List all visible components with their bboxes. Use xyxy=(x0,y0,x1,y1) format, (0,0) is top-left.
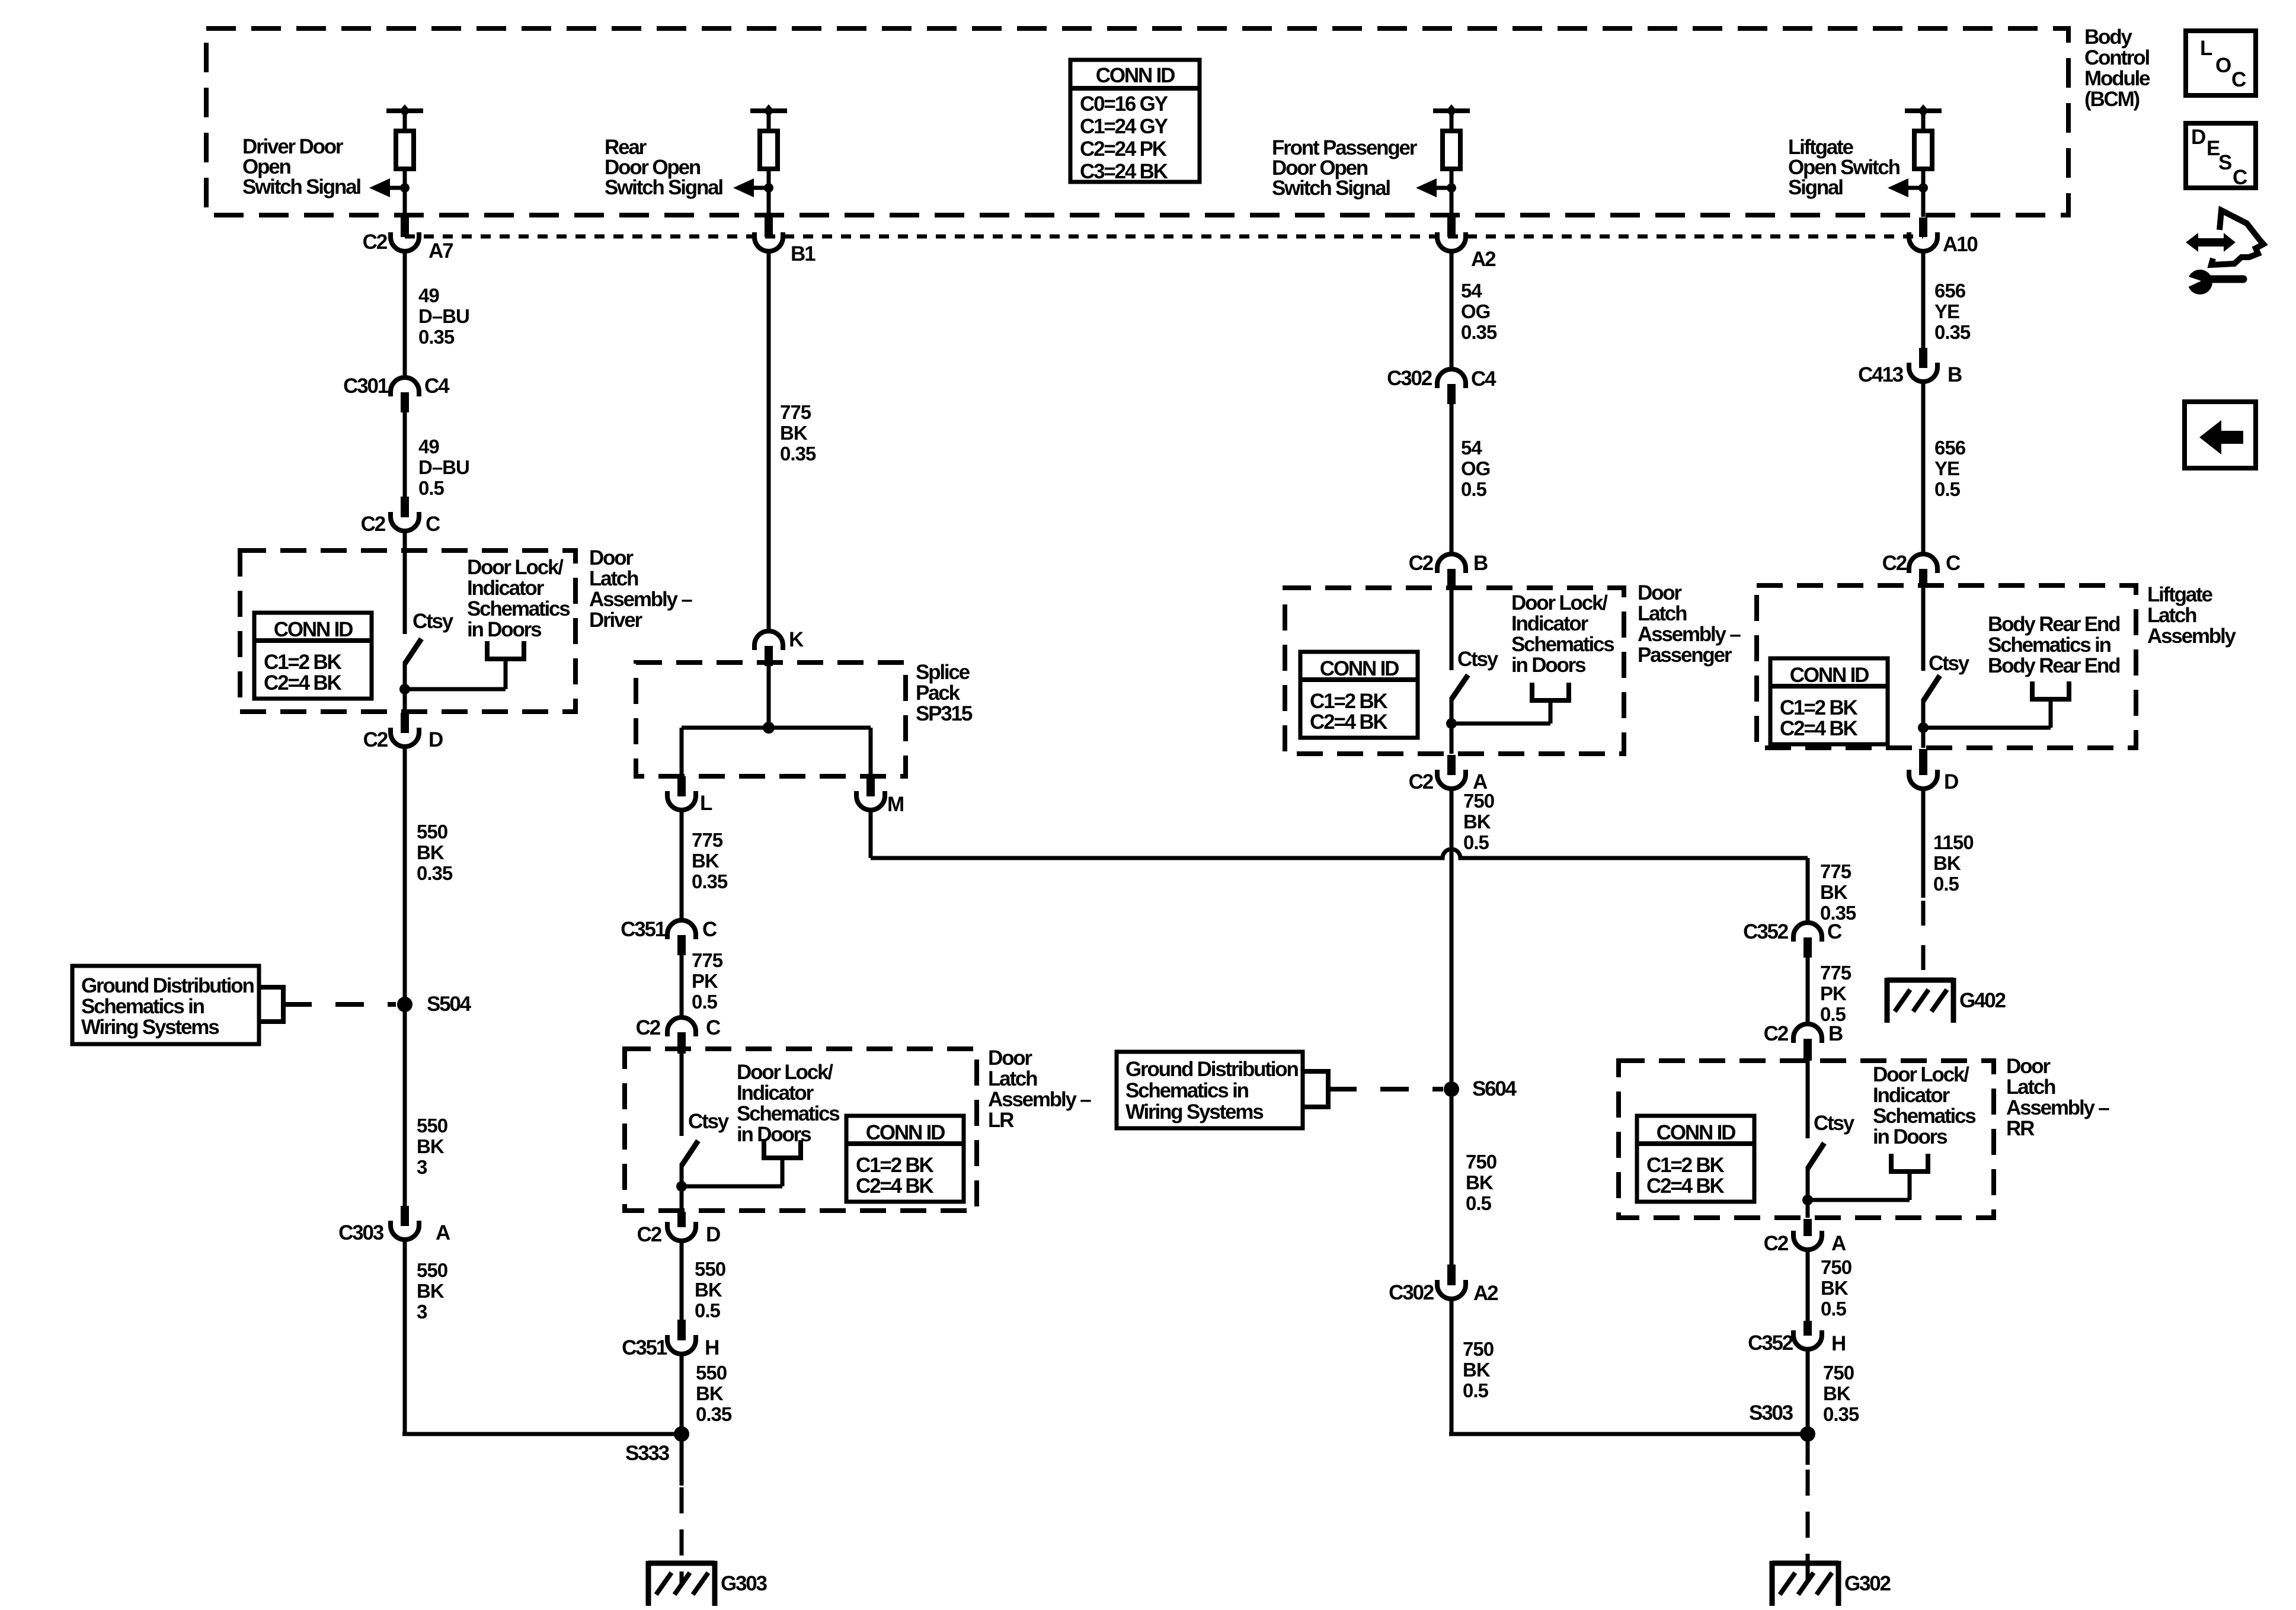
svg-text:D: D xyxy=(1944,770,1958,793)
svg-text:S333: S333 xyxy=(625,1442,670,1465)
svg-text:S604: S604 xyxy=(1472,1077,1517,1100)
svg-text:Wiring Systems: Wiring Systems xyxy=(81,1016,219,1039)
svg-text:L: L xyxy=(2200,37,2212,60)
svg-text:(BCM): (BCM) xyxy=(2084,88,2140,111)
svg-text:Door: Door xyxy=(2006,1055,2051,1078)
svg-text:C2: C2 xyxy=(361,513,386,536)
svg-text:Door: Door xyxy=(589,546,634,569)
svg-text:49: 49 xyxy=(418,436,439,457)
svg-text:775: 775 xyxy=(1820,962,1851,984)
svg-text:C1=2 BK: C1=2 BK xyxy=(856,1154,933,1177)
svg-text:Ctsy: Ctsy xyxy=(1814,1112,1855,1135)
svg-text:C3=24 BK: C3=24 BK xyxy=(1080,160,1168,183)
svg-text:PK: PK xyxy=(1820,982,1847,1004)
svg-text:C0=16 GY: C0=16 GY xyxy=(1080,92,1168,116)
svg-text:750: 750 xyxy=(1463,790,1494,812)
svg-text:BK: BK xyxy=(417,1135,445,1157)
svg-text:C2=4 BK: C2=4 BK xyxy=(1646,1174,1724,1198)
svg-text:in Doors: in Doors xyxy=(467,618,542,641)
svg-text:K: K xyxy=(789,628,804,651)
svg-text:656: 656 xyxy=(1934,280,1966,302)
svg-text:S: S xyxy=(2218,151,2231,174)
svg-text:49: 49 xyxy=(418,284,439,306)
svg-text:C2: C2 xyxy=(1764,1022,1789,1045)
svg-text:0.35: 0.35 xyxy=(1934,321,1971,343)
svg-text:750: 750 xyxy=(1463,1338,1494,1360)
svg-text:Module: Module xyxy=(2084,67,2150,90)
svg-text:C2: C2 xyxy=(1409,770,1434,793)
svg-text:C351: C351 xyxy=(622,1336,667,1359)
svg-text:C2=4 BK: C2=4 BK xyxy=(1310,710,1387,734)
svg-text:0.5: 0.5 xyxy=(1461,478,1487,500)
svg-text:0.5: 0.5 xyxy=(1466,1192,1492,1214)
svg-text:Latch: Latch xyxy=(988,1067,1037,1090)
svg-text:Signal: Signal xyxy=(1788,176,1843,199)
svg-text:Indicator: Indicator xyxy=(467,577,545,600)
svg-text:0.5: 0.5 xyxy=(1463,831,1489,853)
svg-text:C301: C301 xyxy=(343,375,389,398)
svg-text:Latch: Latch xyxy=(2006,1076,2055,1099)
svg-text:0.5: 0.5 xyxy=(1463,1379,1489,1401)
svg-text:A10: A10 xyxy=(1943,233,1978,256)
svg-text:750: 750 xyxy=(1466,1151,1496,1173)
svg-text:Ground Distribution: Ground Distribution xyxy=(1125,1058,1298,1081)
svg-text:H: H xyxy=(1831,1332,1845,1355)
svg-text:1150: 1150 xyxy=(1933,831,1974,853)
svg-text:BK: BK xyxy=(417,841,445,863)
svg-text:BK: BK xyxy=(1463,1359,1491,1381)
svg-text:BK: BK xyxy=(1466,1172,1494,1193)
svg-text:C: C xyxy=(702,918,717,941)
svg-text:Assembly –: Assembly – xyxy=(2006,1096,2109,1119)
svg-text:C: C xyxy=(2233,166,2247,189)
svg-text:775: 775 xyxy=(780,401,811,423)
svg-text:C: C xyxy=(2231,68,2246,91)
svg-text:C2: C2 xyxy=(1882,552,1907,575)
svg-text:Switch Signal: Switch Signal xyxy=(605,176,722,199)
svg-text:C2: C2 xyxy=(363,728,388,751)
svg-text:Latch: Latch xyxy=(589,567,638,590)
svg-text:S504: S504 xyxy=(427,993,472,1016)
svg-text:Passenger: Passenger xyxy=(1638,644,1732,667)
svg-text:B: B xyxy=(1473,552,1488,575)
svg-text:Door: Door xyxy=(988,1046,1032,1070)
svg-text:Control: Control xyxy=(2084,46,2149,69)
svg-text:A: A xyxy=(1831,1232,1846,1255)
svg-text:C2: C2 xyxy=(1409,552,1434,575)
svg-text:H: H xyxy=(705,1336,718,1359)
svg-text:Ctsy: Ctsy xyxy=(1457,648,1499,671)
svg-text:BK: BK xyxy=(1820,881,1848,903)
svg-text:Body Rear End: Body Rear End xyxy=(1988,654,2120,677)
svg-text:in Doors: in Doors xyxy=(1511,654,1586,677)
svg-text:Schematics: Schematics xyxy=(737,1102,840,1125)
svg-text:B: B xyxy=(1828,1022,1843,1045)
svg-text:OG: OG xyxy=(1461,300,1490,322)
svg-text:C1=2 BK: C1=2 BK xyxy=(1780,696,1857,719)
svg-text:550: 550 xyxy=(417,1259,447,1281)
svg-text:550: 550 xyxy=(417,821,447,843)
svg-text:BK: BK xyxy=(696,1382,724,1404)
svg-text:D–BU: D–BU xyxy=(418,305,469,327)
svg-text:BK: BK xyxy=(1821,1277,1849,1299)
svg-text:C352: C352 xyxy=(1743,920,1789,943)
svg-text:Schematics: Schematics xyxy=(467,597,570,620)
svg-text:CONN ID: CONN ID xyxy=(1096,64,1175,87)
svg-text:550: 550 xyxy=(695,1258,725,1280)
svg-text:Door: Door xyxy=(1638,581,1682,604)
svg-text:B1: B1 xyxy=(791,242,816,265)
svg-text:750: 750 xyxy=(1821,1256,1851,1278)
svg-text:C2: C2 xyxy=(363,231,388,254)
svg-text:C2: C2 xyxy=(637,1223,662,1246)
svg-text:Assembly –: Assembly – xyxy=(988,1088,1091,1111)
svg-text:L: L xyxy=(700,792,712,815)
svg-text:G402: G402 xyxy=(1959,989,2006,1012)
svg-text:0.35: 0.35 xyxy=(1461,321,1497,343)
svg-text:0.35: 0.35 xyxy=(780,443,816,465)
svg-text:550: 550 xyxy=(417,1115,447,1137)
svg-text:0.5: 0.5 xyxy=(695,1299,721,1321)
svg-text:G302: G302 xyxy=(1844,1572,1891,1595)
svg-text:Ctsy: Ctsy xyxy=(688,1110,730,1133)
svg-text:Ctsy: Ctsy xyxy=(1929,652,1970,675)
svg-text:C: C xyxy=(426,513,440,536)
svg-text:Assembly –: Assembly – xyxy=(589,588,692,611)
svg-text:C2=4 BK: C2=4 BK xyxy=(856,1174,933,1198)
svg-text:Door Lock/: Door Lock/ xyxy=(467,556,564,579)
svg-text:54: 54 xyxy=(1461,437,1482,459)
svg-text:C4: C4 xyxy=(424,375,450,398)
svg-text:BK: BK xyxy=(695,1279,722,1301)
svg-text:C351: C351 xyxy=(621,918,666,941)
svg-text:Splice: Splice xyxy=(916,661,970,684)
svg-text:0.35: 0.35 xyxy=(1823,1403,1859,1425)
svg-text:Indicator: Indicator xyxy=(1511,612,1589,635)
svg-text:775: 775 xyxy=(1820,860,1851,882)
svg-text:Switch Signal: Switch Signal xyxy=(1272,177,1390,200)
svg-text:Body: Body xyxy=(2084,25,2132,49)
svg-text:G303: G303 xyxy=(721,1572,768,1595)
svg-text:BK: BK xyxy=(780,422,808,444)
svg-text:Door Lock/: Door Lock/ xyxy=(737,1061,833,1084)
svg-text:0.5: 0.5 xyxy=(1821,1298,1847,1320)
svg-text:A2: A2 xyxy=(1473,1282,1498,1305)
svg-text:BK: BK xyxy=(1823,1382,1851,1404)
svg-text:D: D xyxy=(2191,126,2205,149)
svg-text:C4: C4 xyxy=(1471,367,1496,391)
svg-text:Latch: Latch xyxy=(1638,602,1687,625)
svg-text:Assembly –: Assembly – xyxy=(1638,623,1741,646)
svg-text:A2: A2 xyxy=(1471,248,1496,271)
svg-text:E: E xyxy=(2207,137,2220,160)
svg-text:C: C xyxy=(1946,552,1961,575)
svg-text:PK: PK xyxy=(692,970,718,992)
svg-text:Schematics: Schematics xyxy=(1873,1105,1976,1128)
svg-text:YE: YE xyxy=(1934,457,1959,479)
svg-text:0.35: 0.35 xyxy=(692,870,728,892)
svg-text:in Doors: in Doors xyxy=(737,1123,811,1146)
svg-text:0.35: 0.35 xyxy=(418,326,455,348)
svg-text:775: 775 xyxy=(692,949,723,971)
svg-text:Schematics in: Schematics in xyxy=(1988,633,2111,657)
svg-text:CONN ID: CONN ID xyxy=(1657,1121,1735,1144)
svg-text:C413: C413 xyxy=(1858,363,1904,386)
svg-text:CONN ID: CONN ID xyxy=(1320,657,1399,680)
svg-text:D: D xyxy=(706,1223,720,1246)
svg-text:Schematics in: Schematics in xyxy=(81,995,204,1018)
svg-text:C302: C302 xyxy=(1389,1281,1434,1304)
svg-text:S303: S303 xyxy=(1749,1401,1793,1425)
svg-text:C1=2 BK: C1=2 BK xyxy=(264,651,341,674)
svg-text:3: 3 xyxy=(417,1301,427,1323)
svg-text:C2: C2 xyxy=(636,1016,661,1039)
svg-text:Latch: Latch xyxy=(2147,604,2196,627)
svg-text:656: 656 xyxy=(1934,437,1966,459)
svg-text:550: 550 xyxy=(696,1362,727,1384)
svg-text:3: 3 xyxy=(417,1156,427,1178)
svg-text:LR: LR xyxy=(988,1109,1014,1132)
svg-text:RR: RR xyxy=(2006,1117,2035,1140)
svg-text:Schematics: Schematics xyxy=(1511,633,1614,656)
svg-text:BK: BK xyxy=(1933,852,1961,874)
svg-text:Pack: Pack xyxy=(916,681,961,705)
svg-text:C2: C2 xyxy=(1764,1232,1789,1255)
svg-text:in Doors: in Doors xyxy=(1873,1125,1948,1148)
svg-text:Liftgate: Liftgate xyxy=(2147,583,2213,606)
svg-text:54: 54 xyxy=(1461,280,1482,302)
svg-text:D–BU: D–BU xyxy=(418,456,469,478)
svg-text:YE: YE xyxy=(1934,300,1959,322)
svg-text:A7: A7 xyxy=(428,239,453,263)
svg-text:C302: C302 xyxy=(1387,367,1432,390)
svg-text:SP315: SP315 xyxy=(916,702,973,725)
svg-text:750: 750 xyxy=(1823,1362,1854,1384)
svg-text:Door Lock/: Door Lock/ xyxy=(1873,1063,1969,1086)
svg-text:BK: BK xyxy=(417,1280,445,1302)
svg-text:M: M xyxy=(887,793,903,816)
svg-text:0.5: 0.5 xyxy=(1933,873,1959,895)
svg-text:Assembly: Assembly xyxy=(2147,625,2236,648)
svg-text:C352: C352 xyxy=(1748,1331,1793,1355)
svg-text:C303: C303 xyxy=(338,1221,384,1244)
svg-text:Door Lock/: Door Lock/ xyxy=(1511,591,1608,614)
svg-text:CONN ID: CONN ID xyxy=(866,1121,945,1144)
svg-text:C1=24 GY: C1=24 GY xyxy=(1080,115,1168,138)
svg-text:Ground Distribution: Ground Distribution xyxy=(81,974,254,997)
svg-text:C2=4 BK: C2=4 BK xyxy=(264,671,341,694)
svg-text:Ctsy: Ctsy xyxy=(412,610,454,633)
svg-text:Body Rear End: Body Rear End xyxy=(1988,613,2120,636)
svg-text:BK: BK xyxy=(692,850,720,872)
svg-text:D: D xyxy=(428,728,443,751)
svg-text:C2=4 BK: C2=4 BK xyxy=(1780,717,1857,740)
svg-text:Indicator: Indicator xyxy=(1873,1084,1950,1107)
svg-text:Wiring Systems: Wiring Systems xyxy=(1125,1100,1264,1124)
svg-text:0.5: 0.5 xyxy=(418,477,445,499)
svg-text:B: B xyxy=(1948,363,1962,386)
svg-text:Indicator: Indicator xyxy=(737,1081,814,1105)
svg-text:775: 775 xyxy=(692,829,723,851)
svg-text:0.5: 0.5 xyxy=(1934,478,1961,500)
svg-text:OG: OG xyxy=(1461,457,1490,479)
svg-text:BK: BK xyxy=(1463,811,1491,833)
svg-text:A: A xyxy=(436,1221,450,1244)
svg-text:C1=2 BK: C1=2 BK xyxy=(1646,1154,1724,1177)
svg-text:C: C xyxy=(706,1016,721,1039)
svg-text:Driver: Driver xyxy=(589,609,643,632)
svg-text:C: C xyxy=(1827,920,1842,943)
svg-text:C1=2 BK: C1=2 BK xyxy=(1310,690,1387,713)
svg-text:C2=24 PK: C2=24 PK xyxy=(1080,137,1167,161)
svg-text:0.35: 0.35 xyxy=(696,1403,732,1425)
svg-text:Switch Signal: Switch Signal xyxy=(242,175,360,199)
svg-text:0.5: 0.5 xyxy=(692,991,718,1013)
svg-text:CONN ID: CONN ID xyxy=(1790,664,1869,687)
svg-text:CONN ID: CONN ID xyxy=(274,618,353,641)
svg-text:O: O xyxy=(2215,54,2231,77)
svg-text:0.35: 0.35 xyxy=(417,862,453,884)
svg-text:Schematics in: Schematics in xyxy=(1125,1079,1249,1102)
